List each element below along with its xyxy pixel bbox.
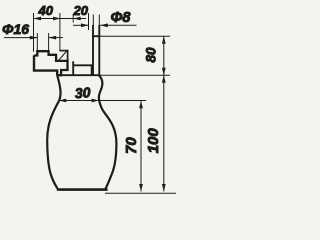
extension stub above tube left: [92, 15, 94, 27]
arrowhead 80 bottom: [162, 68, 166, 76]
extension stub above tube right: [98, 15, 100, 27]
vase left profile wall: [47, 75, 60, 188]
svg-text:100: 100: [145, 128, 162, 154]
svg-text:Φ8: Φ8: [111, 10, 132, 26]
wick tube bottom bridge: [92, 35, 100, 37]
arrowhead Phi8 left (outside, pointing right): [81, 23, 89, 27]
arrowhead 80 top: [162, 36, 166, 44]
arrowhead 40 right: [53, 17, 61, 21]
dim line 100: [163, 75, 165, 191]
extension line Phi16 left: [36, 33, 38, 50]
svg-text:40: 40: [38, 3, 54, 18]
arrowhead 100 top: [162, 75, 166, 83]
arrowhead 30 left: [59, 99, 67, 103]
arrowhead Phi8 right (outside, pointing left): [100, 23, 108, 27]
svg-text:Φ16: Φ16: [2, 21, 29, 37]
svg-text:80: 80: [143, 47, 158, 63]
wick tube left wall: [92, 25, 94, 75]
extension line left of 40 dim: [33, 13, 35, 52]
vase right profile wall: [99, 75, 117, 189]
extension line Phi16 right: [48, 33, 50, 51]
extension line top of 80 (from tube bridge): [100, 35, 170, 37]
svg-text:20: 20: [73, 3, 89, 18]
dimension line 40: [34, 18, 61, 20]
extension line right of 20 dim: [88, 13, 90, 30]
arrowhead 70 bottom: [139, 184, 143, 192]
arrowhead 40 left: [34, 17, 42, 21]
arrowhead Phi16 left (outside, pointing right): [30, 36, 38, 40]
extension line at base level: [105, 192, 176, 194]
arrowhead Phi16 right (outside, pointing left): [49, 36, 57, 40]
wick tube right wall: [98, 25, 100, 75]
extension line at box edge for 20 dim: [72, 14, 74, 23]
dim line 80: [163, 36, 165, 75]
extension line between 40 and 20 dims: [59, 13, 61, 50]
arrowhead 20 right (outside, pointing left): [73, 17, 81, 21]
chimney right edge down to step: [67, 50, 69, 62]
extension line at vase mouth level (80 bottom / 100 top): [99, 74, 170, 76]
svg-text:70: 70: [123, 137, 140, 154]
dim line Phi8 (leader to the right): [100, 24, 136, 26]
diagonal slash on cap: [58, 51, 67, 61]
arrowhead 70 top: [139, 101, 143, 109]
stepped cap left wall and bottom: [34, 55, 57, 75]
stepped cap outline (top left part): [34, 51, 68, 75]
arrowhead 30 right: [92, 99, 100, 103]
dim line 30 (extends right as extension for 70): [58, 100, 146, 102]
dimension line 20: [61, 18, 87, 20]
dim line 70: [140, 101, 142, 192]
mouth line (box bottom extending left): [57, 74, 99, 76]
dim line of Phi16 with tail to label: [4, 37, 37, 39]
mouth box (rim bead): [73, 61, 92, 75]
chimney bottom ledge: [60, 50, 69, 52]
arrowhead 100 bottom: [162, 184, 166, 192]
svg-text:30: 30: [74, 84, 91, 101]
vase base: [57, 188, 108, 191]
